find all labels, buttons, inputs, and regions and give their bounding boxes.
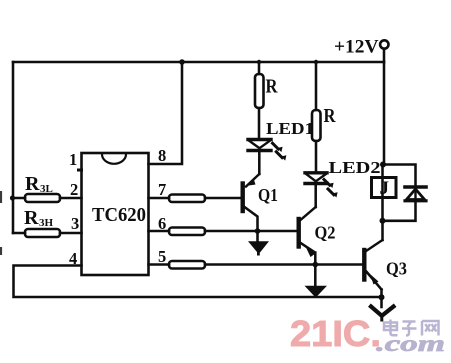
wire pin 5 <box>149 263 170 266</box>
node junction rail/R2 <box>314 60 318 64</box>
wire relay top to diode <box>383 165 416 186</box>
node junction Q2 emitter / pin5 wire <box>313 262 319 268</box>
LED2 light arrows <box>324 180 338 198</box>
wire pin 6 <box>149 230 170 233</box>
svg-text:3L: 3L <box>40 183 53 195</box>
svg-text:.com: .com <box>376 331 445 356</box>
子 <box>402 322 417 336</box>
node junction Q3 emitter / ground wire <box>379 294 385 300</box>
svg-text:R: R <box>25 173 40 195</box>
wire resistor to Q3 base <box>205 263 364 266</box>
wire resistor to Q1 base <box>205 197 241 200</box>
label R3H <box>24 207 54 229</box>
wire +12V power rail <box>13 61 384 64</box>
+12V terminal <box>380 40 388 48</box>
resistor R3H <box>13 232 82 235</box>
ground Q1 <box>248 241 269 255</box>
svg-text:LED1: LED1 <box>266 119 314 138</box>
wire pin 7 <box>149 197 170 200</box>
transistor Q2 <box>299 207 316 286</box>
node junction relay top <box>380 162 386 168</box>
svg-text:TC620: TC620 <box>92 204 146 226</box>
pin 1 stub <box>79 169 82 172</box>
svg-text:8: 8 <box>158 146 166 165</box>
scan edge marks <box>0 191 2 255</box>
node junction pin8/rail <box>179 59 185 65</box>
wire relay bottom to diode <box>383 201 416 221</box>
svg-text:21IC.: 21IC. <box>290 313 381 354</box>
resistor R branch1 <box>258 62 261 138</box>
svg-text:Q2: Q2 <box>315 223 336 243</box>
resistor R branch2 <box>315 62 318 171</box>
LED2 <box>305 173 327 207</box>
wire terminal to rail <box>383 49 386 62</box>
IC U1 TC620 <box>82 153 149 275</box>
node junction left bus / R3L <box>10 195 15 200</box>
relay J coil box <box>372 178 397 200</box>
resistor pin6 series <box>169 228 205 236</box>
node junction relay bottom <box>380 218 386 224</box>
svg-text:3H: 3H <box>39 217 54 229</box>
label R3L <box>25 173 53 195</box>
svg-text:R: R <box>266 76 278 98</box>
resistor pin7 series <box>169 195 205 203</box>
svg-text:5: 5 <box>158 247 166 266</box>
wire relay box to bottom junction <box>381 221 384 240</box>
ground Q3 <box>371 307 394 321</box>
svg-text:3: 3 <box>71 214 79 233</box>
wire rail to relay <box>383 62 385 221</box>
wire pin 4 ground return <box>14 266 382 298</box>
transistor Q3 <box>364 240 382 307</box>
LED1 light arrows <box>273 143 287 160</box>
svg-text:LED2: LED2 <box>329 158 381 177</box>
ground Q2 <box>305 286 328 297</box>
电 <box>384 320 398 336</box>
wire left vertical bus <box>12 62 15 233</box>
svg-text:Q3: Q3 <box>386 259 407 279</box>
node junction Q1 emitter / pin6 wire <box>255 228 261 234</box>
svg-text:+12V: +12V <box>334 37 379 58</box>
svg-text:2: 2 <box>70 180 78 199</box>
svg-text:R: R <box>324 105 336 127</box>
svg-text:R: R <box>24 207 39 229</box>
resistor R3L <box>13 197 82 200</box>
svg-text:Q1: Q1 <box>258 185 278 205</box>
wire resistor to Q2 base <box>205 230 297 233</box>
svg-text:1: 1 <box>69 150 77 169</box>
wire pin 8 to rail <box>149 62 183 164</box>
diode D flyback <box>405 187 426 201</box>
watermark 电子网 glyphs <box>384 320 439 336</box>
网 <box>422 321 439 336</box>
resistor pin5 series <box>169 261 205 269</box>
svg-text:7: 7 <box>158 180 166 199</box>
transistor Q1 <box>243 174 260 241</box>
svg-text:J: J <box>380 178 390 199</box>
LED1 <box>248 140 271 175</box>
node junction rail/R1 <box>257 60 261 64</box>
